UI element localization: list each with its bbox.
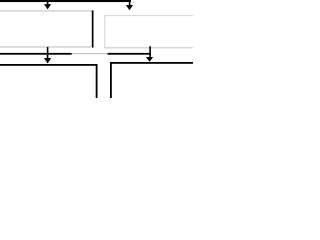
box bottom-left: top edge (black): [0, 64, 98, 66]
arrowhead into bottom-right box: [146, 57, 153, 62]
box top-left: bottom edge (gray): [0, 46, 92, 47]
box bottom-right: top edge (black): [110, 62, 193, 64]
wire vertical from top-left box bottom to bottom-left box: [47, 47, 49, 58]
box top-right: bottom edge (gray): [104, 47, 193, 48]
wire mid horizontal gray middle segment: [72, 53, 108, 54]
box top-right: top edge (gray): [104, 15, 193, 16]
wire vertical from top-right box bottom to bottom-right box: [149, 46, 151, 57]
box top-left: top edge (gray): [0, 10, 92, 11]
arrowhead into top-left box: [44, 4, 51, 9]
box bottom-right: left edge (black): [110, 62, 112, 98]
arrowhead into top-right box: [126, 5, 133, 10]
box top-left: right edge (black): [92, 10, 94, 47]
wire mid horizontal black left segment: [0, 53, 72, 55]
wire elbow drop at right end of top connector: [129, 1, 131, 5]
box bottom-left: right edge (black): [96, 64, 98, 98]
wire mid horizontal black right segment: [108, 53, 152, 55]
wire arrow branch into top-left box: [47, 1, 49, 4]
wire top connector horizontal run: [0, 0, 131, 2]
box top-right: left edge (gray): [104, 15, 105, 48]
arrowhead into bottom-left box: [44, 58, 51, 64]
